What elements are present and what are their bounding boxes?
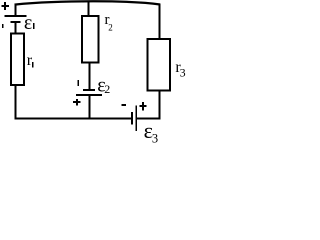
wire right side down from r3 to bottom <box>159 92 161 120</box>
battery E2 short plate (-) <box>83 89 95 91</box>
label r1 subscript 1 <box>32 62 34 68</box>
battery E3 minus label <box>121 104 126 106</box>
battery E3 short plate (-) <box>131 112 133 125</box>
wire top (bowed) <box>15 1 161 4</box>
wire stub r2 to battery E2 <box>89 63 91 90</box>
battery E2 long plate (+) <box>76 94 102 96</box>
wire left from r1 down <box>15 86 17 120</box>
svg-text:2: 2 <box>104 82 110 96</box>
svg-text:r: r <box>27 52 33 69</box>
wire stub battery E2 to bottom wire <box>89 96 91 118</box>
battery E3 long plate (+) <box>135 106 137 132</box>
resistor r3 <box>148 39 171 91</box>
label E1 subscript 1 <box>33 23 35 29</box>
battery E1 short plate (-) <box>10 21 20 23</box>
battery E2 plus label <box>73 101 80 103</box>
wire right side top <box>159 4 161 40</box>
wire stub from top wire to battery E1 <box>15 4 17 15</box>
battery E1 long plate (+) <box>5 15 27 17</box>
wire bottom left segment <box>15 118 132 120</box>
resistor r1 <box>11 33 24 84</box>
minus tick of battery E1 <box>2 24 4 28</box>
battery E3 plus label <box>139 105 146 107</box>
svg-text:3: 3 <box>152 131 158 144</box>
svg-text:3: 3 <box>180 66 186 80</box>
wire stub top wire to r2 <box>88 1 90 15</box>
plus sign of battery E1 <box>1 5 9 7</box>
wire stub battery E1 to resistor r1 <box>15 23 17 33</box>
wire bottom right segment <box>137 118 161 120</box>
minus tick of battery E2 <box>77 80 79 86</box>
svg-text:2: 2 <box>108 22 113 32</box>
svg-text:ε: ε <box>24 12 32 34</box>
resistor r2 <box>82 16 99 63</box>
